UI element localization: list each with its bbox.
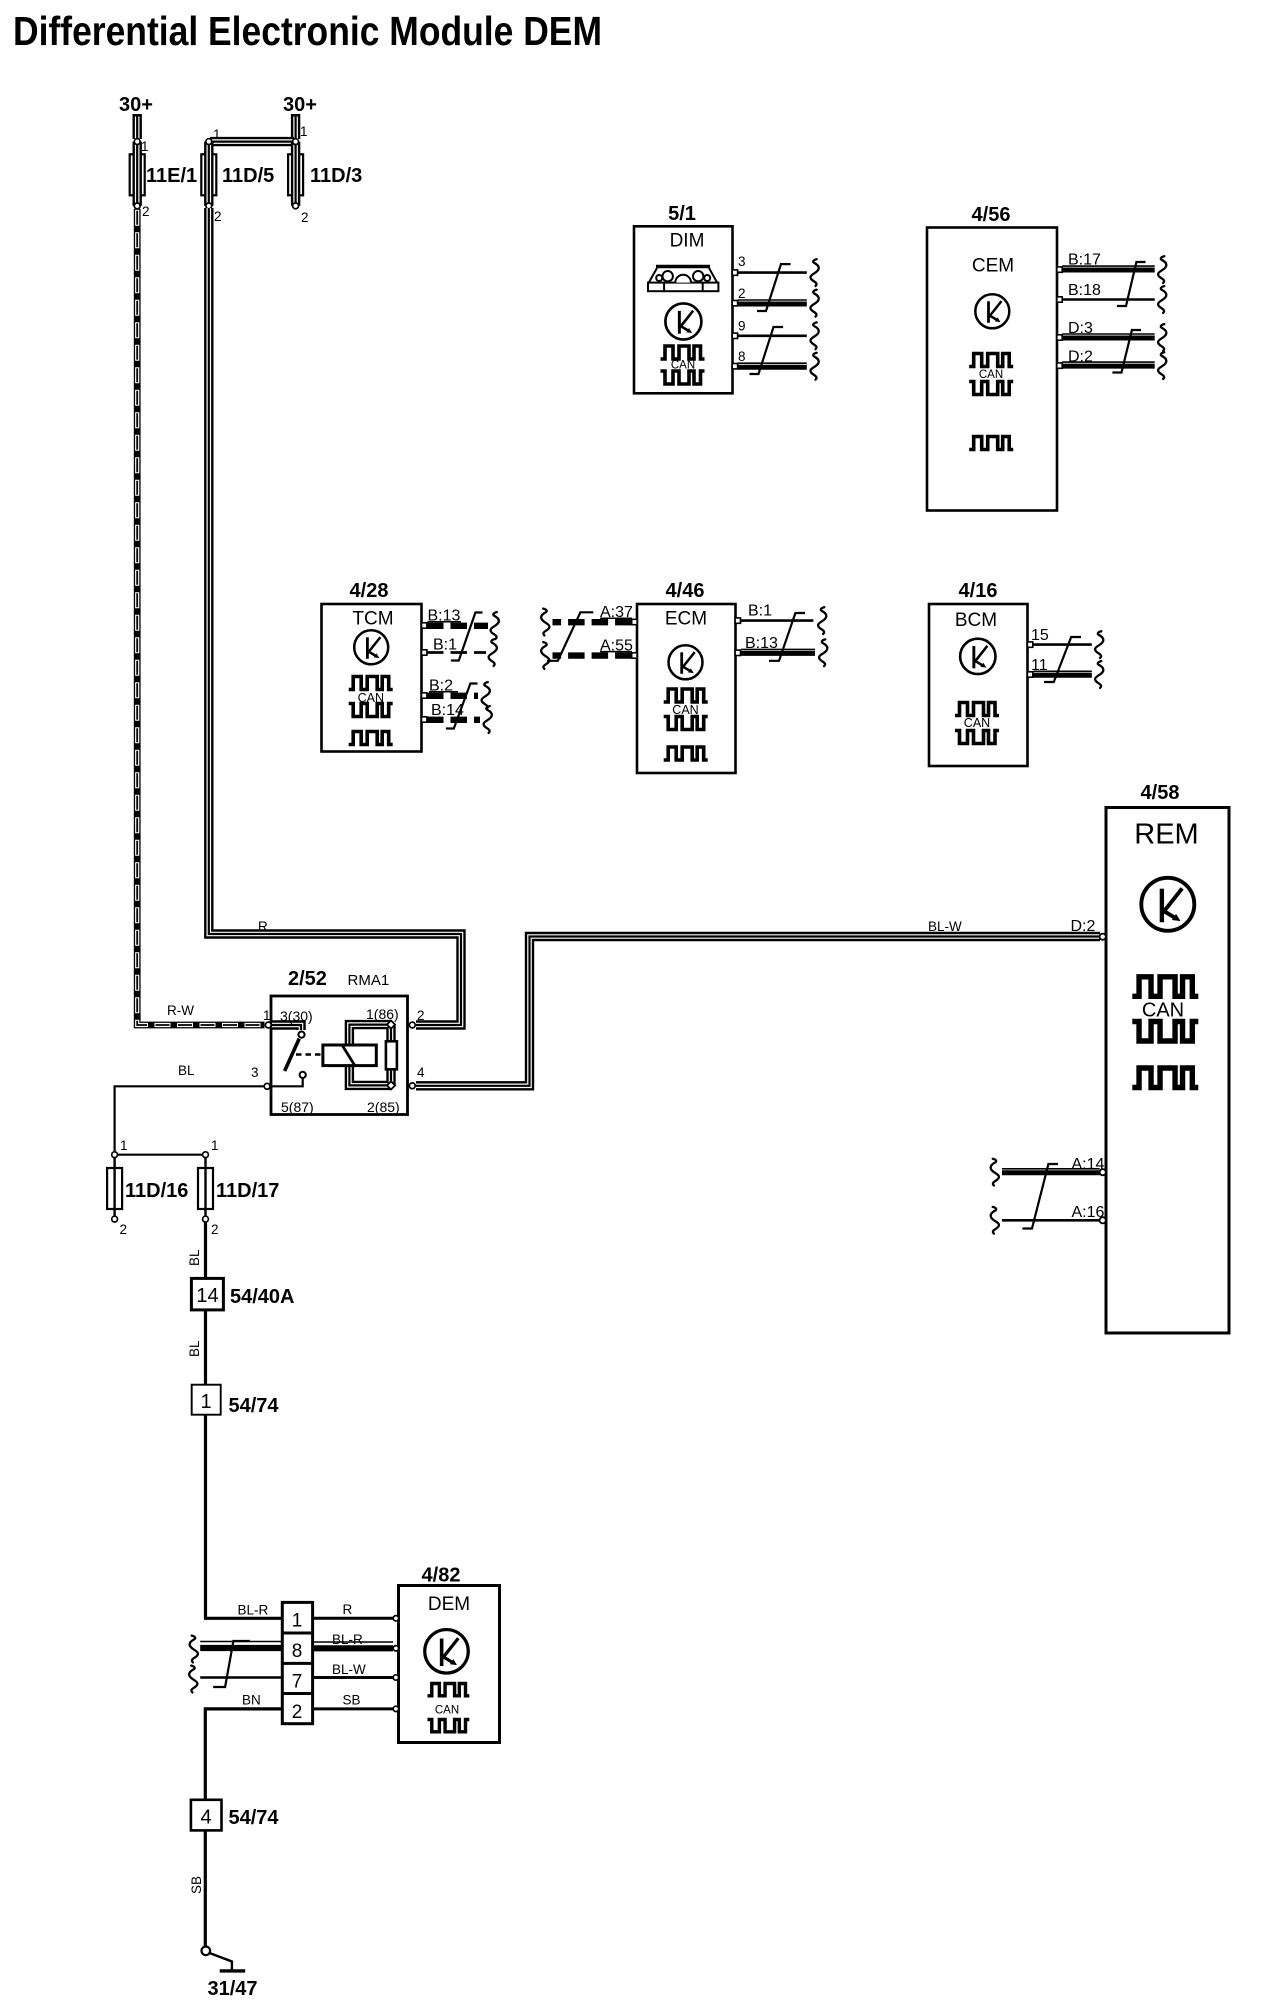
wire BL (11D/17 down to 54/40A) [204, 1222, 207, 1278]
svg-text:8: 8 [292, 1641, 303, 1662]
svg-text:54/74: 54/74 [229, 1395, 280, 1417]
svg-text:CAN: CAN [979, 369, 1003, 381]
fuse 11D/3 [288, 124, 362, 225]
twisted pair mark B:1/B:13 [769, 613, 805, 661]
CAN symbol [969, 354, 1013, 367]
svg-text:4/46: 4/46 [666, 580, 705, 602]
wire to strip pin 8 (thick, from left) [200, 1641, 282, 1643]
twisted pair mark B:17/B:18 [1117, 262, 1146, 306]
connector 54/74 pin 4 [191, 1800, 222, 1831]
wire link fuse tops [115, 1154, 206, 1156]
wire TCM B:14 (thick dashed) [427, 717, 480, 723]
wire CEM D:2 (thick) [1062, 361, 1155, 363]
svg-text:4: 4 [417, 1065, 425, 1080]
ground terminal circle [202, 1947, 211, 1956]
twisted pair mark D:3/D:2 [1112, 330, 1141, 373]
continuation squiggles (left) [541, 609, 549, 636]
fuse 11D/16 [107, 1138, 188, 1237]
relay coil loop wire [349, 1025, 391, 1086]
svg-text:RMA1: RMA1 [348, 972, 390, 989]
relay resistor [386, 1041, 397, 1069]
svg-text:CAN: CAN [435, 1705, 459, 1717]
svg-text:R: R [258, 919, 268, 934]
relay 2/52 RMA1 [251, 968, 425, 1115]
wire DIM pin 8 (thick) [738, 362, 807, 364]
svg-text:BL: BL [187, 1249, 202, 1266]
wire BL (54/40A to 54/74) [204, 1310, 207, 1385]
svg-text:30+: 30+ [119, 94, 153, 116]
svg-text:11E/1: 11E/1 [146, 165, 197, 187]
svg-text:54/40A: 54/40A [230, 1286, 295, 1308]
wire ECM B:13 (thick) [741, 648, 815, 650]
svg-text:DEM: DEM [428, 1594, 470, 1615]
svg-text:ECM: ECM [665, 609, 707, 630]
fuse 11D/5 [201, 127, 274, 224]
svg-text:2: 2 [301, 210, 309, 225]
continuation squiggles (left) [991, 1159, 999, 1186]
module ECM 4/46 [541, 580, 827, 773]
ground link [210, 1953, 232, 1970]
wire BL-R (strip 8 to DEM, thick) [313, 1641, 393, 1643]
svg-text:BL: BL [187, 1340, 202, 1357]
wire DIM pin 3 [738, 271, 807, 274]
twisted pair mark A:37/A:55 [547, 612, 593, 661]
K symbol [975, 294, 1009, 328]
wire BL-W (relay pin 4 to REM D:2) [416, 937, 1100, 1086]
svg-text:2(85): 2(85) [367, 1099, 400, 1115]
svg-text:DIM: DIM [670, 231, 705, 252]
svg-text:TCM: TCM [352, 609, 393, 630]
svg-text:31/47: 31/47 [208, 1978, 258, 2000]
module CEM 4/56 [927, 204, 1166, 511]
wire 30+ feed to fuse 11D/3 [295, 114, 297, 139]
switch-coil dashed link [296, 1053, 322, 1056]
relay pin terminals [265, 1022, 271, 1028]
K symbol [665, 303, 701, 339]
CAN symbol [661, 346, 705, 359]
svg-text:2: 2 [417, 1008, 425, 1023]
svg-text:3: 3 [738, 254, 746, 269]
continuation squiggles (left) [190, 1636, 198, 1663]
wire CEM D:3 (thick) [1062, 333, 1155, 335]
svg-text:2: 2 [738, 286, 746, 301]
K symbol [354, 630, 388, 664]
CAN symbol [664, 689, 708, 702]
BCM pin terminals [1027, 642, 1032, 647]
wire BN (strip pin 2 to 54/74 pin 4) [205, 1709, 282, 1800]
svg-text:11D/5: 11D/5 [222, 165, 274, 187]
wire SB (54/74 to ground) [204, 1830, 207, 1946]
twisted pair mark pins 3/2 [757, 264, 791, 311]
DIM pin terminals [732, 270, 737, 275]
connector 54/74 pin 1 [192, 1385, 221, 1415]
wire TCM B:1 (dashed) [427, 651, 486, 654]
module BCM 4/16 [929, 580, 1103, 766]
wire to strip pin 7 (from left) [200, 1676, 282, 1679]
wire R (11D/5 to relay pin 2) [209, 208, 461, 1025]
fuse 11E/1 [130, 139, 197, 219]
square wave symbol [969, 437, 1013, 450]
wire CEM B:17 (thick) [1062, 265, 1155, 267]
instrument cluster icon [648, 267, 718, 292]
pin A:14 terminal [1100, 1169, 1106, 1175]
svg-text:4/56: 4/56 [972, 204, 1011, 226]
svg-text:A:16: A:16 [1072, 1204, 1105, 1221]
svg-text:B:18: B:18 [1068, 282, 1101, 299]
continuation squiggles [818, 607, 826, 634]
twisted pair mark A:14/A:16 [1022, 1164, 1058, 1229]
svg-text:11D/16: 11D/16 [125, 1180, 188, 1202]
connector 54/40A pin 14 [191, 1278, 223, 1310]
svg-text:R-W: R-W [167, 1003, 194, 1018]
svg-text:2: 2 [292, 1702, 303, 1723]
pin A:16 terminal [1100, 1217, 1106, 1223]
CAN symbol [1132, 977, 1198, 997]
svg-text:1: 1 [213, 127, 221, 142]
CAN symbol [428, 1684, 470, 1696]
svg-text:1: 1 [292, 1611, 303, 1632]
svg-text:1(86): 1(86) [366, 1006, 399, 1022]
svg-text:1: 1 [141, 139, 149, 154]
ECM pin terminals [632, 619, 637, 624]
svg-text:2: 2 [120, 1222, 128, 1237]
svg-text:REM: REM [1134, 819, 1198, 851]
wire ECM B:1 [741, 619, 813, 622]
svg-text:2/52: 2/52 [288, 968, 327, 990]
svg-text:1: 1 [120, 1138, 128, 1153]
svg-text:5(87): 5(87) [281, 1099, 314, 1115]
TCM pin terminals [422, 623, 427, 628]
svg-text:BL-R: BL-R [238, 1603, 269, 1618]
wire REM A:14 (thick) [1002, 1168, 1100, 1170]
wire CEM B:18 [1062, 298, 1155, 301]
svg-text:3: 3 [251, 1065, 259, 1080]
continuation squiggles [1095, 631, 1103, 658]
svg-text:R: R [343, 1602, 353, 1617]
svg-text:54/74: 54/74 [229, 1807, 280, 1829]
CAN symbol [349, 677, 393, 690]
wire ECM A:55 (thick dashed) [553, 652, 632, 658]
module REM 4/58 [991, 782, 1229, 1333]
svg-text:BCM: BCM [955, 610, 997, 631]
svg-text:B:1: B:1 [748, 603, 772, 620]
fuse 11D/17 [198, 1138, 279, 1237]
wire 30+ feed to fuse 11E/1 [136, 114, 138, 139]
switch arm [285, 1039, 300, 1071]
relay coil [323, 1045, 376, 1066]
switch contact top [298, 1032, 304, 1038]
twisted pair mark B:13/B:1 [451, 613, 483, 661]
wire R (strip 1 to DEM) [313, 1617, 393, 1620]
svg-text:4/82: 4/82 [422, 1565, 461, 1587]
svg-text:9: 9 [738, 319, 746, 334]
module DIM 5/1 [634, 203, 819, 393]
twisted pair mark 15/11 [1044, 637, 1081, 682]
twisted pair mark pins 9/8 [750, 327, 784, 374]
wire BCM 11 (thick) [1033, 670, 1092, 672]
module TCM 4/28 [322, 580, 499, 752]
svg-text:15: 15 [1031, 627, 1049, 644]
wire R-W dashed (11E/1 to relay pin 1) [137, 209, 264, 1025]
continuation squiggles [810, 259, 818, 286]
continuation squiggles [1158, 256, 1166, 283]
svg-text:1: 1 [263, 1008, 271, 1023]
svg-text:1: 1 [200, 1391, 211, 1413]
svg-text:SB: SB [189, 1876, 204, 1894]
svg-text:11D/3: 11D/3 [310, 165, 362, 187]
wire BL-W (strip 7 to DEM) [313, 1676, 393, 1679]
svg-text:4: 4 [200, 1807, 211, 1829]
svg-text:4/16: 4/16 [959, 580, 998, 602]
svg-text:BL-W: BL-W [928, 919, 962, 934]
svg-text:CAN: CAN [964, 716, 990, 730]
svg-text:2: 2 [214, 209, 222, 224]
svg-text:B:1: B:1 [433, 637, 457, 654]
twisted pair mark B:2/B:14 [446, 684, 478, 729]
square wave symbol [1132, 1068, 1198, 1088]
square wave symbol [349, 732, 393, 745]
svg-text:3(30): 3(30) [280, 1008, 313, 1024]
wire link 11D/5 pin1 to 11D/3 pin1 [210, 141, 294, 143]
junction node 2(85) [387, 1081, 395, 1089]
wire REM A:16 [1002, 1219, 1100, 1222]
svg-text:BN: BN [242, 1693, 261, 1708]
wire TCM B:2 (thick dashed) [427, 693, 478, 699]
svg-text:BL-W: BL-W [332, 1662, 366, 1677]
pin D:2 terminal [1100, 934, 1106, 940]
svg-text:D:2: D:2 [1068, 349, 1093, 366]
wire BL-R (54/74 down and right to DEM strip pin 1) [206, 1415, 283, 1618]
svg-text:1: 1 [300, 124, 308, 139]
K symbol [669, 645, 703, 679]
wire SB (strip 2 to DEM) [313, 1707, 393, 1710]
svg-text:30+: 30+ [283, 94, 317, 116]
twisted pair mark strip 8/7 [213, 1641, 250, 1687]
svg-text:CAN: CAN [1142, 1000, 1184, 1022]
DEM connector strip [282, 1602, 312, 1723]
svg-text:SB: SB [343, 1693, 361, 1708]
svg-text:14: 14 [196, 1285, 218, 1307]
module DEM 4/82 [313, 1565, 500, 1743]
continuation squiggles [491, 612, 499, 639]
square wave symbol [664, 747, 708, 760]
switch contact bottom [300, 1072, 306, 1078]
wire TCM B:13 (thick dashed) [427, 623, 488, 629]
svg-text:CEM: CEM [972, 256, 1014, 277]
ground 31/47 [220, 1969, 246, 1972]
wire relay pin1 to switch [272, 1025, 301, 1030]
svg-text:5/1: 5/1 [668, 203, 696, 225]
svg-text:4/58: 4/58 [1141, 782, 1180, 804]
wire BL (relay pin 3 to fuses 11D/16, 11D/17) [115, 1086, 264, 1151]
svg-text:BL-R: BL-R [332, 1632, 363, 1647]
svg-text:11D/17: 11D/17 [216, 1180, 279, 1202]
CEM pin terminals [1057, 267, 1062, 272]
svg-text:4/28: 4/28 [350, 580, 389, 602]
svg-text:1: 1 [211, 1138, 219, 1153]
K symbol [960, 639, 995, 674]
wire switch to pin 3 [266, 1078, 303, 1086]
svg-text:2: 2 [211, 1222, 219, 1237]
junction node 1(86) [387, 1020, 395, 1028]
K symbol [425, 1630, 469, 1674]
CAN symbol [955, 703, 999, 716]
wire BCM 15 [1033, 643, 1092, 646]
svg-text:Differential Electronic Module: Differential Electronic Module DEM [13, 8, 602, 54]
wire ECM A:37 (thick dashed) [553, 619, 632, 625]
K symbol [1141, 878, 1194, 931]
wire DIM pin 2 (thick) [738, 299, 807, 301]
svg-text:7: 7 [292, 1672, 303, 1693]
wire DIM pin 9 [738, 334, 807, 337]
DEM pin terminals [393, 1616, 398, 1621]
svg-text:8: 8 [738, 349, 746, 364]
svg-text:BL: BL [178, 1063, 195, 1078]
svg-text:2: 2 [142, 204, 150, 219]
svg-text:D:2: D:2 [1071, 918, 1096, 935]
